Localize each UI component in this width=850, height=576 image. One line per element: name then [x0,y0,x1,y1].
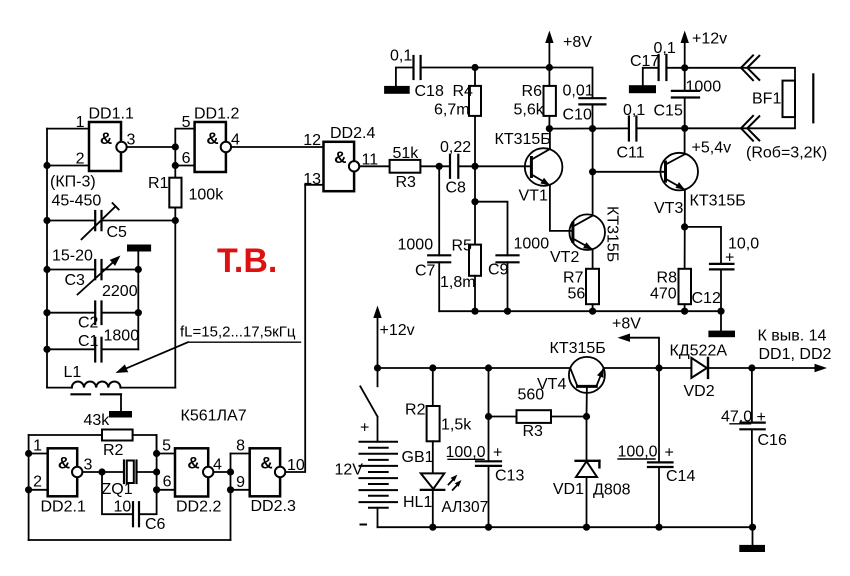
svg-text:DD2.1: DD2.1 [41,499,86,516]
crystal ZQ1 [102,461,157,499]
node HL1 bottom [429,524,436,531]
svg-text:DD2.2: DD2.2 [176,499,221,516]
svg-text:+: + [360,420,369,437]
svg-text:R4: R4 [453,83,474,100]
svg-text:R8: R8 [657,270,678,287]
wire feedback bottom [29,539,231,541]
zener VD1 [553,417,631,528]
pin 13 DD2.4 [303,171,323,188]
node VD2 out C16 [748,364,755,371]
node C13 bottom [485,524,492,531]
pin 2 DD1.1 [47,151,89,168]
wire C11 to VT3 collector node [636,127,684,129]
power +12v arrow bottom [373,306,414,369]
svg-text:2200: 2200 [102,283,138,300]
node R5 bottom [471,308,478,315]
resistor R5 [440,166,481,311]
svg-text:6,7m: 6,7m [434,102,470,119]
svg-text:&: & [58,454,70,473]
wire DD2.3 input rail [230,454,232,540]
svg-text:VD1: VD1 [553,481,584,498]
L1 core line [72,393,122,395]
svg-text:C10: C10 [563,107,592,124]
node rail crystal [153,468,160,475]
svg-text:&: & [260,454,272,473]
svg-text:(Rоб=3,2К): (Rоб=3,2К) [746,145,827,162]
connector chevron top [741,55,759,80]
svg-text:C6: C6 [145,516,166,533]
node R8 bottom [681,308,688,315]
svg-text:КД522А: КД522А [670,343,728,360]
power +12v arrow top [681,31,728,68]
svg-text:10: 10 [114,499,132,516]
pin 8 DD2.3 [231,438,250,455]
wire VT1 collector lead [549,129,551,149]
svg-text:6: 6 [182,150,191,167]
svg-text:К561ЛА7: К561ЛА7 [181,408,247,425]
svg-text:43k: 43k [84,412,111,429]
switch SA [360,368,377,442]
node C2 left [43,309,50,316]
svg-text:12: 12 [303,132,321,149]
ground supply [739,545,765,552]
wire rail to ground [752,527,754,545]
svg-text:VT2: VT2 [550,249,579,266]
ground C17 [629,85,656,93]
power +8V tap arrow [618,334,660,369]
svg-text:C16: C16 [758,432,787,449]
wire left input rail [28,435,30,540]
gate DD2.2 [175,448,221,515]
label fL frequency note [116,324,301,374]
gate DD2.4 [324,125,376,191]
node VD1 bottom [583,524,590,531]
svg-text:0,01: 0,01 [563,83,594,100]
pin 6 DD1.2 [175,150,194,167]
svg-text:5: 5 [162,438,171,455]
node DD2.1 out [98,468,105,475]
svg-text:DD1, DD2: DD1, DD2 [759,346,832,363]
wire VT3 emitter lead [684,190,686,269]
svg-text:+: + [493,445,502,462]
svg-text:C7: C7 [415,263,436,280]
svg-text:+: + [665,445,674,462]
svg-text:10: 10 [287,457,305,474]
pin 3 DD1.1 output wire [127,132,176,149]
svg-text:&: & [100,129,112,148]
svg-text:+: + [725,250,734,267]
ground L1 core [109,411,132,418]
svg-text:DD1.2: DD1.2 [194,106,239,123]
node R7 bottom [589,308,596,315]
ground L1 ladder top [127,245,151,252]
svg-text:1000: 1000 [398,237,434,254]
resistor R6 [514,68,556,129]
svg-text:47,0: 47,0 [721,409,752,426]
svg-text:C3: C3 [65,272,86,289]
svg-text:5,6k: 5,6k [514,102,545,119]
svg-text:R3: R3 [523,423,544,440]
power +8V arrow top [545,31,592,68]
svg-text:КТ315Б: КТ315Б [550,340,606,357]
capacitor C3 variable [47,256,138,295]
node R4 top [471,64,478,71]
gate DD1.2 [194,106,239,173]
connector chevron bottom [741,116,759,141]
capacitor C5 trimmer [47,203,175,241]
node C14 top [655,364,662,371]
svg-text:5: 5 [182,114,191,131]
node bottom rail end [749,524,756,531]
transistor VT1 [495,131,563,205]
svg-text:11: 11 [362,152,379,169]
node R3 C7 junction [436,163,443,170]
node C9 bottom [504,308,511,315]
capacitor C1 [47,333,138,362]
ground C18 [384,86,410,94]
svg-text:DD2.4: DD2.4 [330,125,375,142]
svg-text:8: 8 [236,438,245,455]
svg-text:6: 6 [163,474,172,491]
capacitor C6 [102,472,166,533]
node C3 left [43,266,50,273]
wire VT1 collector node [549,127,629,129]
svg-text:56: 56 [568,286,586,303]
node C13 R3 [485,413,492,420]
pin 1 DD2.1 [29,438,48,455]
wire VT3 collector to BF1 bottom [685,117,795,128]
svg-text:4: 4 [213,457,222,474]
wire R1 bottom [174,208,176,221]
svg-text:12V: 12V [335,462,364,479]
node C5 left [43,217,50,224]
svg-text:R3: R3 [396,174,417,191]
svg-text:100k: 100k [189,187,225,204]
node VT3 collector C15 [681,125,688,132]
svg-text:0,1: 0,1 [390,48,412,65]
svg-text:Д808: Д808 [593,482,631,499]
svg-text:C12: C12 [692,290,721,307]
node DD1.1 out junction [172,143,179,150]
wire VT4 base [586,386,588,416]
svg-text:&: & [187,454,199,473]
svg-text:15-20: 15-20 [52,248,93,265]
svg-text:Т.В.: Т.В. [217,242,277,280]
svg-text:DD2.3: DD2.3 [251,498,296,515]
svg-text:1000: 1000 [514,236,550,253]
svg-text:+: + [757,409,766,426]
svg-text:1000: 1000 [686,79,722,96]
svg-text:3: 3 [84,457,93,474]
transistor VT2 [550,206,621,266]
svg-text:1: 1 [76,114,85,131]
svg-text:L1: L1 [64,364,82,381]
wire supply top rail [378,367,569,369]
wire supply bottom rail [378,526,753,528]
gate DD1.1 [89,106,134,172]
node VT2 collector VT3 base [589,168,596,175]
wire VT4 emitter rail [604,367,692,369]
wire junction to R1 [174,147,176,178]
svg-text:0,1: 0,1 [623,102,645,119]
wire output arrow to DD supply [752,328,832,373]
resistor R4 [434,68,481,167]
svg-text:C5: C5 [107,224,128,241]
node C3 right [135,266,142,273]
svg-text:&: & [334,148,346,167]
svg-text:К выв. 14: К выв. 14 [758,328,827,345]
wire right rail [174,221,176,388]
svg-text:VD2: VD2 [684,383,715,400]
capacitor C15 [654,68,722,129]
svg-text:1,8m: 1,8m [440,274,476,291]
svg-text:R2: R2 [103,442,124,459]
svg-text:VT1: VT1 [519,188,548,205]
wire battery minus to rail [377,508,379,527]
wire crystal right rail [156,435,158,490]
node C8 R4 base [471,163,478,170]
wire +12v rail to BF1 [685,68,795,81]
svg-text:АЛ307: АЛ307 [442,499,489,516]
capacitor C9 [475,202,549,312]
capacitor C2 [47,302,138,332]
node C17 +12v rail [681,64,688,71]
svg-text:C11: C11 [617,145,645,162]
svg-text:45-450: 45-450 [52,193,102,210]
svg-text:+12v: +12v [692,31,727,48]
inductor L1 [47,364,175,388]
resistor R8 [650,269,691,311]
svg-text:GB1: GB1 [402,449,434,466]
capacitor C17 [630,40,685,85]
svg-text:КТ315Б: КТ315Б [495,131,551,148]
svg-text:R6: R6 [522,83,543,100]
node R6 top [546,64,553,71]
svg-text:ZQ1: ZQ1 [102,481,133,498]
node DD2.2 out [227,468,234,475]
pin 4 DD2.2 output [213,457,231,474]
svg-text:C14: C14 [666,468,695,485]
svg-text:C15: C15 [654,103,683,120]
node VT4 base R3 [583,413,590,420]
svg-text:C18: C18 [415,83,444,100]
svg-text:VT4: VT4 [537,376,566,393]
svg-text:3: 3 [127,132,136,149]
node pin2 rail [43,162,50,169]
capacitor C7 [398,166,451,311]
pin 10 DD2.3 output wire to DD2.4 [286,185,306,474]
svg-text:470: 470 [650,286,677,303]
svg-text:fL=15,2...17,5кГц: fL=15,2...17,5кГц [180,324,296,341]
pin 2 DD2.1 [29,474,48,491]
svg-text:1,5k: 1,5k [441,417,472,434]
battery GB1 [335,420,434,525]
wire core to ground [120,394,122,411]
transistor VT3 [654,153,746,217]
svg-text:100,0: 100,0 [618,444,658,461]
wire R3 to C8 [420,165,450,167]
svg-text:R1: R1 [148,175,169,192]
svg-text:9: 9 [236,474,245,491]
gate DD2.1 [41,448,86,515]
node C1 left [43,346,50,353]
node R2 top [429,364,436,371]
svg-text:C8: C8 [446,180,467,197]
wire C8 to VT1 base [458,165,531,167]
node rail pin6 [153,486,160,493]
resistor R2 43k [29,412,157,459]
node R1 bottom C5 [172,217,179,224]
pin 5 DD2.2 [157,438,175,455]
svg-text:100,0: 100,0 [446,444,486,461]
capacitor C11 [617,102,646,162]
svg-text:0,22: 0,22 [440,139,471,156]
svg-text:+5,4v: +5,4v [692,140,732,157]
svg-text:(КП-3): (КП-3) [50,174,96,191]
resistor R3 51k [390,145,421,191]
svg-text:C1: C1 [78,333,99,350]
svg-text:4: 4 [231,132,240,149]
svg-text:HL1: HL1 [403,494,432,511]
wire C12 to ground [720,311,722,330]
wire top rail 8V [421,68,593,99]
wire C ladder right rail [137,252,139,350]
node C2 right [135,309,142,316]
svg-text:КТ315Б: КТ315Б [604,206,621,262]
svg-text:0,1: 0,1 [654,40,676,57]
transistor VT4 [537,340,606,393]
pin 3 DD2.1 output [82,457,124,474]
resistor R7 [563,250,599,312]
svg-text:13: 13 [303,171,321,188]
resistor R3 560 [489,387,587,441]
svg-text:1: 1 [33,438,42,455]
node C13 top [485,364,492,371]
pin 9 DD2.3 [231,474,250,491]
svg-text:BF1: BF1 [752,91,781,108]
pin 1 DD1.1 [47,114,89,131]
wire amp bottom rail [439,310,721,312]
svg-text:2: 2 [76,151,85,168]
svg-text:C13: C13 [495,468,524,485]
node C10 bottom [589,125,596,132]
node C9 branch [471,198,478,205]
svg-text:&: & [206,129,218,148]
svg-text:1800: 1800 [104,328,140,345]
pin 6 DD2.2 [157,474,175,491]
wire VT1 emitter to VT2 base [550,185,573,231]
pin 4 DD1.2 output wire to DD2.4 [231,132,324,149]
svg-text:R7: R7 [563,270,584,287]
resistor R1 [148,175,224,208]
capacitor C14 [618,368,696,527]
node +12v rail [374,364,381,371]
node rail pin5 [153,450,160,457]
svg-text:C2: C2 [78,315,99,332]
capacitor C12 [685,227,760,311]
capacitor C18 [390,48,444,101]
capacitor C8 [440,139,471,197]
svg-text:+8V: +8V [612,316,641,333]
svg-text:51k: 51k [393,145,420,162]
svg-text:DD1.1: DD1.1 [89,106,134,123]
diode VD2 [670,343,752,401]
resistor R2 1,5k [405,368,472,473]
pin 5 DD1.2 [175,114,194,147]
wire VT3 collector lead [684,128,686,154]
ground amp rail [708,331,735,338]
wire VT2 collector rail [592,129,594,216]
node pin9 [227,486,234,493]
svg-text:КТ315Б: КТ315Б [690,193,746,210]
svg-text:VT3: VT3 [654,200,683,217]
svg-text:R2: R2 [405,402,426,419]
LED HL1 [403,473,488,527]
svg-text:C9: C9 [488,262,509,279]
node VT3 emitter C12 branch [681,223,688,230]
node pin1 [25,450,32,457]
speaker BF1 [752,74,813,122]
svg-text:2: 2 [33,474,42,491]
capacitor C16 [721,368,787,527]
node C14 bottom [655,524,662,531]
capacitor C10 [563,83,606,129]
capacitor C13 [446,368,525,527]
node pin2 [25,486,32,493]
svg-text:+8V: +8V [563,34,592,51]
pin 11 DD2.4 output [359,152,389,169]
wire left rail [46,129,48,388]
wire VT3 base [593,171,666,173]
svg-text:R5: R5 [452,238,473,255]
node VT1 collector [546,125,553,132]
node C12 bottom [717,308,724,315]
node pin6 R1 junction [172,162,179,169]
gate DD2.3 [250,448,296,515]
svg-text:+12v: +12v [380,322,415,339]
